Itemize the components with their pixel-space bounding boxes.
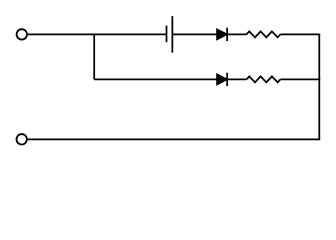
terminal T1 (top-left open circle) xyxy=(17,29,27,39)
wire D1 to resistor R1 xyxy=(227,33,246,35)
resistor R2 (middle zigzag) xyxy=(247,76,281,82)
wire T1 to battery xyxy=(28,33,167,35)
diode D1 (top) triangle xyxy=(217,29,227,39)
wire junction down to middle branch xyxy=(93,34,95,79)
diode D1 cathode bar xyxy=(226,28,228,41)
battery B1 long plate (positive) xyxy=(171,16,173,53)
battery B1 short plate (negative) xyxy=(166,26,168,43)
wire right vertical bus xyxy=(318,34,320,139)
wire bottom from T2 to right bus xyxy=(27,138,320,140)
wire R1 to right bus xyxy=(280,33,320,35)
wire battery to diode D1 xyxy=(172,33,217,35)
wire D2 to resistor R2 xyxy=(227,78,246,80)
diode D2 (middle) triangle xyxy=(217,74,227,84)
resistor R1 (top zigzag) xyxy=(247,31,281,37)
wire middle branch horizontal to diode D2 xyxy=(94,78,217,80)
wire R2 to right bus xyxy=(280,78,320,80)
diode D2 cathode bar xyxy=(226,73,228,86)
terminal T2 (bottom-left open circle) xyxy=(17,134,27,144)
